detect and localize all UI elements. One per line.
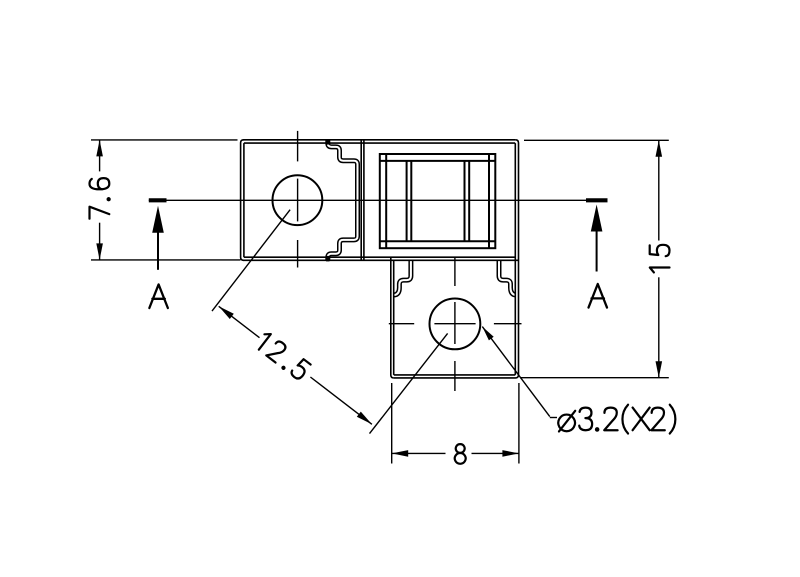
body bottom edge / lower body top edge (double line) (244, 256, 515, 258)
connector frame inner grid lines (380, 154, 496, 248)
dimension 15 line and arrows (658, 140, 660, 240)
dimension 7.6 line and arrows (99, 140, 101, 172)
connector divider bar left (407, 161, 412, 241)
dimension 15 extension lines (524, 139, 669, 141)
connector divider bar right (465, 161, 470, 241)
junction edge between cap and connector (double line) (361, 140, 364, 260)
snap hook solid end stubs (326, 139, 329, 145)
snap hook (lower body, left) (394, 260, 411, 295)
dimension 12.5 extension line from H1 (212, 210, 290, 311)
section line thick tick right (586, 198, 608, 202)
centerline H2 vertical (454, 257, 456, 287)
body left edge (double line, rounded corners) (241, 140, 244, 260)
snap hook (upper junction, S-shaped) (328, 140, 358, 262)
dimension 12.5 extension line from H2 (370, 333, 448, 433)
dimension text 8 (455, 444, 466, 464)
section label A right (589, 284, 608, 308)
centerline H2 horizontal (389, 323, 414, 325)
section label A left (149, 284, 168, 308)
dimension 8 line and arrows (392, 452, 446, 454)
section arrow left (157, 229, 159, 270)
section line thick tick left (149, 198, 167, 202)
snap hook (lower body, right) (499, 260, 516, 295)
dimension 12.5 line and arrows (219, 306, 260, 337)
dimension text 7.6 (rotated) (90, 178, 110, 219)
dimension 8 extension lines (391, 383, 393, 464)
hole H2 (lower, dia 3.2) (430, 299, 481, 350)
centerline H1 vertical (297, 131, 299, 162)
section cutting plane line A-A (also H1 horizontal centerline) (149, 199, 608, 201)
connector frame outer rectangle (380, 154, 496, 248)
body top edge (double line) (243, 139, 515, 141)
dimension 7.6 extension lines (91, 139, 238, 141)
lower body left edge (double line) (391, 257, 394, 378)
hole H1 (upper, dia 3.2) (273, 175, 323, 225)
right edge of connector and lower body (double line) (514, 143, 516, 375)
dimension text 15 (rotated) (650, 245, 670, 273)
lower body bottom edge (double line) (394, 374, 516, 376)
dimension text 12.5 (rotated) (255, 331, 311, 381)
leader line for hole diameter (482, 327, 550, 417)
label dia 3.2 (X2) (558, 405, 675, 434)
section arrow right (596, 230, 598, 272)
